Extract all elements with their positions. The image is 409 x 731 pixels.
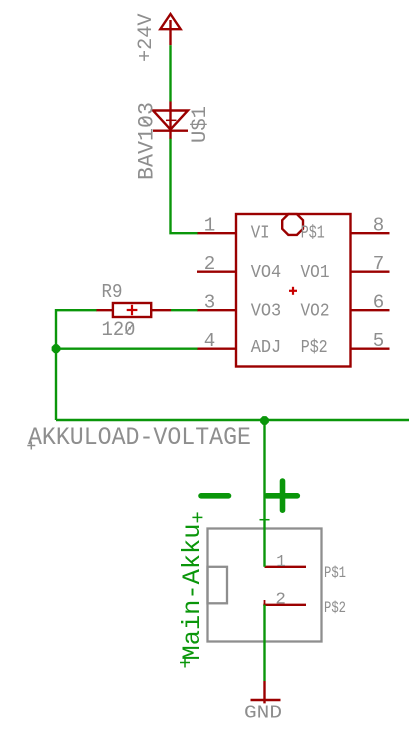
svg-text:GND: GND [244,703,282,724]
svg-text:1: 1 [276,552,286,571]
svg-text:7: 7 [373,253,385,275]
svg-text:U$1: U$1 [189,106,212,143]
svg-text:R9: R9 [102,281,123,303]
svg-text:VO2: VO2 [301,301,330,322]
svg-text:8: 8 [373,215,385,237]
svg-text:VI: VI [251,223,270,244]
svg-text:BAV103: BAV103 [135,102,160,180]
svg-text:ADJ: ADJ [251,337,282,358]
svg-text:3: 3 [204,292,216,314]
svg-text:+24V: +24V [135,14,158,63]
svg-text:AKKULOAD-VOLTAGE: AKKULOAD-VOLTAGE [28,423,251,452]
svg-text:P$1: P$1 [324,564,346,582]
svg-text:Main-Akku: Main-Akku [178,524,207,661]
svg-text:120: 120 [102,319,136,342]
svg-text:P$2: P$2 [324,599,346,617]
svg-text:P$2: P$2 [301,337,328,358]
svg-text:6: 6 [373,292,385,314]
svg-text:VO1: VO1 [301,262,330,283]
svg-text:5: 5 [373,330,385,352]
svg-text:2: 2 [204,253,216,275]
svg-text:4: 4 [204,330,216,352]
svg-text:P$1: P$1 [301,223,325,244]
svg-text:VO4: VO4 [251,262,282,283]
svg-text:1: 1 [204,215,216,237]
svg-text:2: 2 [275,590,286,609]
svg-text:VO3: VO3 [251,301,282,322]
